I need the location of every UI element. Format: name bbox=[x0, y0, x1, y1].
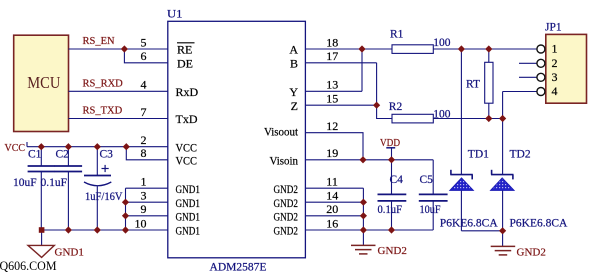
svg-text:B: B bbox=[290, 56, 298, 70]
svg-text:100: 100 bbox=[433, 109, 451, 121]
svg-text:11: 11 bbox=[326, 175, 338, 189]
svg-text:0.1uF: 0.1uF bbox=[41, 177, 68, 189]
svg-text:GND1: GND1 bbox=[176, 209, 201, 223]
svg-text:TD2: TD2 bbox=[510, 149, 531, 161]
svg-text:Z: Z bbox=[291, 99, 298, 113]
svg-text:C4: C4 bbox=[390, 174, 404, 186]
svg-text:Y: Y bbox=[289, 85, 298, 99]
svg-text:5: 5 bbox=[141, 35, 147, 49]
svg-text:C3: C3 bbox=[100, 149, 114, 161]
svg-text:Q606.COM: Q606.COM bbox=[0, 259, 57, 273]
svg-text:GND1: GND1 bbox=[176, 224, 201, 238]
svg-text:R2: R2 bbox=[389, 101, 403, 113]
svg-text:A: A bbox=[289, 43, 298, 57]
svg-text:GND2: GND2 bbox=[274, 196, 299, 210]
svg-text:10: 10 bbox=[135, 216, 147, 230]
svg-text:1: 1 bbox=[141, 175, 147, 189]
svg-text:1: 1 bbox=[552, 42, 558, 56]
svg-text:6: 6 bbox=[141, 49, 147, 63]
svg-text:DE: DE bbox=[177, 56, 193, 70]
svg-text:C2: C2 bbox=[56, 149, 70, 161]
svg-text:0.1uF: 0.1uF bbox=[378, 204, 403, 216]
svg-text:3: 3 bbox=[552, 70, 558, 84]
svg-text:MCU: MCU bbox=[27, 73, 60, 92]
svg-text:1uF/16V: 1uF/16V bbox=[85, 191, 123, 203]
svg-text:16: 16 bbox=[326, 216, 338, 230]
svg-text:JP1: JP1 bbox=[545, 21, 562, 33]
svg-text:GND1: GND1 bbox=[176, 196, 201, 210]
svg-text:7: 7 bbox=[141, 105, 147, 119]
svg-text:18: 18 bbox=[326, 35, 338, 49]
svg-text:GND2: GND2 bbox=[517, 246, 546, 258]
svg-text:4: 4 bbox=[552, 84, 558, 98]
svg-text:P6KE6.8CA: P6KE6.8CA bbox=[510, 217, 569, 229]
svg-text:9: 9 bbox=[141, 202, 147, 216]
svg-text:C1: C1 bbox=[28, 149, 42, 161]
svg-text:12: 12 bbox=[326, 119, 338, 133]
svg-text:C5: C5 bbox=[420, 174, 434, 186]
svg-text:TD1: TD1 bbox=[468, 149, 489, 161]
svg-text:13: 13 bbox=[326, 78, 338, 92]
svg-text:GND2: GND2 bbox=[274, 182, 299, 196]
svg-text:2: 2 bbox=[141, 133, 147, 147]
svg-text:R1: R1 bbox=[390, 28, 404, 40]
svg-text:20: 20 bbox=[326, 202, 338, 216]
svg-text:4: 4 bbox=[141, 78, 147, 92]
svg-text:GND2: GND2 bbox=[274, 224, 299, 238]
svg-text:VCC: VCC bbox=[176, 140, 198, 154]
svg-text:VCC: VCC bbox=[176, 153, 198, 167]
svg-text:15: 15 bbox=[326, 92, 338, 106]
svg-text:17: 17 bbox=[326, 49, 338, 63]
svg-text:RS_TXD: RS_TXD bbox=[83, 106, 123, 117]
svg-text:GND1: GND1 bbox=[176, 182, 201, 196]
svg-text:GND2: GND2 bbox=[378, 245, 407, 257]
svg-text:VCC: VCC bbox=[5, 142, 26, 154]
svg-text:RxD: RxD bbox=[176, 85, 199, 99]
svg-text:10uF: 10uF bbox=[420, 204, 441, 216]
svg-text:2: 2 bbox=[552, 56, 558, 70]
svg-text:14: 14 bbox=[326, 189, 338, 203]
svg-text:8: 8 bbox=[141, 146, 147, 160]
svg-text:19: 19 bbox=[326, 146, 338, 160]
svg-text:RS_EN: RS_EN bbox=[83, 36, 116, 47]
svg-text:P6KE6.8CA: P6KE6.8CA bbox=[440, 217, 499, 229]
svg-text:100: 100 bbox=[433, 37, 451, 49]
svg-text:VDD: VDD bbox=[380, 137, 400, 149]
svg-text:RS_RXD: RS_RXD bbox=[83, 78, 124, 89]
svg-text:ADM2587E: ADM2587E bbox=[210, 259, 267, 273]
svg-text:U1: U1 bbox=[167, 6, 183, 20]
svg-text:10uF: 10uF bbox=[13, 177, 37, 189]
svg-text:GND2: GND2 bbox=[274, 209, 299, 223]
svg-text:RT: RT bbox=[466, 79, 480, 91]
svg-text:RE: RE bbox=[177, 43, 192, 57]
svg-text:3: 3 bbox=[141, 189, 147, 203]
svg-text:Visoout: Visoout bbox=[264, 125, 299, 139]
svg-text:GND1: GND1 bbox=[55, 247, 84, 259]
svg-text:Visoin: Visoin bbox=[270, 153, 299, 167]
svg-text:TxD: TxD bbox=[176, 112, 198, 126]
